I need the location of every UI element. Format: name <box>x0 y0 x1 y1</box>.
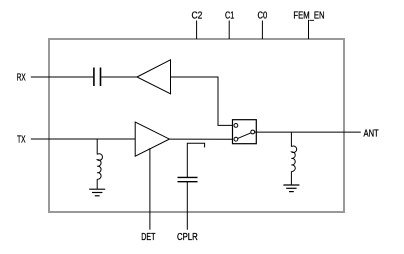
inductor L2 (ANT shunt) <box>291 132 296 185</box>
ground (TX shunt) <box>89 189 105 196</box>
wire DET (from PA to DET pin) <box>149 148 151 230</box>
svg-text:C1: C1 <box>225 10 235 21</box>
amplifier U1 LNA (points left) <box>137 60 171 94</box>
wire PA output to switch bottom terminal <box>169 138 233 140</box>
switch SW1 (SPDT) <box>233 120 257 144</box>
wire TX input <box>31 138 135 140</box>
capacitor C (RX dc-block) <box>94 68 101 87</box>
pin FEM_EN <box>293 10 324 39</box>
svg-text:CPLR: CPLR <box>177 232 198 243</box>
port label TX <box>17 135 26 146</box>
amplifier U2 PA (points right) <box>135 122 169 156</box>
pin C2 <box>192 10 203 39</box>
svg-text:RX: RX <box>17 72 26 83</box>
port label DET <box>141 232 155 243</box>
module boundary box <box>49 39 344 212</box>
ground (ANT shunt) <box>283 185 299 192</box>
svg-text:FEM_EN: FEM_EN <box>293 10 324 21</box>
wire ANT output <box>255 131 361 133</box>
switch terminal (TX side) <box>234 137 238 141</box>
port label CPLR <box>177 232 198 243</box>
switch terminal (RX side) <box>234 124 238 128</box>
switch terminal (ANT side) <box>251 130 255 134</box>
wire RX input <box>31 76 93 78</box>
switch arm <box>238 133 251 139</box>
port label ANT <box>364 129 379 140</box>
inductor L1 (TX shunt) <box>97 139 102 189</box>
svg-text:DET: DET <box>141 232 155 243</box>
capacitor (CPLR dc-block) <box>178 177 198 181</box>
pin C0 <box>258 10 268 39</box>
wire LNA output to switch top terminal <box>171 77 234 125</box>
pin C1 <box>225 10 235 39</box>
svg-text:TX: TX <box>17 135 26 146</box>
wire CPLR (to CPLR pin) <box>186 182 188 230</box>
port label RX <box>17 72 26 83</box>
svg-text:C0: C0 <box>258 10 268 21</box>
svg-text:ANT: ANT <box>364 129 379 140</box>
svg-text:C2: C2 <box>192 10 203 21</box>
wire cap to LNA <box>101 76 137 78</box>
directional coupler (coupled line) <box>187 143 204 177</box>
